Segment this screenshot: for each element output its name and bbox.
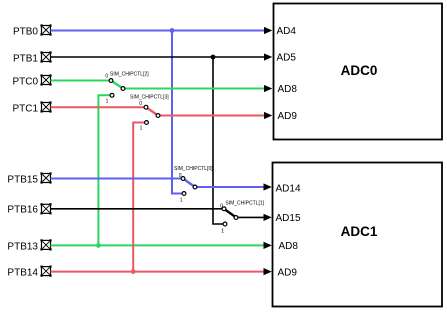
svg-text:0: 0 [105, 74, 108, 80]
svg-text:PTB1: PTB1 [13, 54, 38, 65]
wire switch common to AD8 ADC0 (green) [123, 88, 265, 90]
svg-text:PTC0: PTC0 [12, 77, 38, 88]
svg-text:PTB0: PTB0 [13, 27, 38, 38]
node junction blue [170, 28, 175, 33]
pin PTB1 [13, 51, 52, 64]
arrow into AD9 ADC0 [264, 112, 272, 119]
svg-text:AD9: AD9 [278, 111, 298, 122]
wire PTB14 to AD9 ADC1 (red) [51, 271, 265, 273]
svg-text:PTB16: PTB16 [7, 204, 38, 215]
wire PTC1 to switch 0 (red) [51, 106, 147, 108]
switch SIM_CHIPCTL[0] [174, 166, 213, 203]
svg-text:1: 1 [221, 228, 224, 234]
arrow into AD5 [264, 53, 272, 60]
pin PTB15 [7, 172, 51, 185]
svg-text:SIM_CHIPCTL[2]: SIM_CHIPCTL[2] [110, 72, 149, 78]
arrow into AD14 [264, 183, 272, 190]
wire blue vertical branch PTB0 to switch 1 [172, 31, 184, 194]
svg-text:SIM_CHIPCTL[0]: SIM_CHIPCTL[0] [174, 166, 213, 172]
wire PTB1 to AD5 (black) [51, 56, 265, 58]
block ADC0 [274, 4, 443, 140]
svg-text:AD8: AD8 [278, 84, 298, 95]
wire PTB16 to switch 0 (black) [51, 208, 225, 210]
arrow into AD15 [264, 214, 272, 221]
wire switch common to AD14 (blue) [195, 186, 265, 188]
arrow into AD9 ADC1 [264, 268, 272, 275]
wire switch common to AD9 ADC0 (red) [158, 115, 265, 117]
svg-text:0: 0 [139, 101, 142, 107]
wire red branch from switch 1 down to PTB14 [133, 123, 146, 272]
pin PTB0 [13, 24, 52, 37]
switch SIM_CHIPCTL[2] [105, 72, 149, 105]
svg-text:PTC1: PTC1 [12, 104, 38, 115]
pin PTC1 [12, 101, 51, 114]
svg-text:ADC1: ADC1 [341, 224, 378, 239]
svg-text:ADC0: ADC0 [341, 63, 378, 78]
arrow into AD8 ADC1 [264, 242, 272, 249]
wire PTB13 to AD8 ADC1 (green) [51, 244, 265, 246]
svg-text:SIM_CHIPCTL[3]: SIM_CHIPCTL[3] [130, 95, 169, 101]
svg-text:AD15: AD15 [276, 213, 301, 224]
pin PTB14 [7, 266, 51, 279]
node junction red [131, 269, 136, 274]
svg-text:AD14: AD14 [276, 184, 301, 195]
block ADC1 [273, 163, 443, 307]
svg-text:1: 1 [106, 99, 109, 105]
svg-text:PTB15: PTB15 [7, 175, 38, 186]
switch SIM_CHIPCTL[1] [220, 201, 265, 235]
svg-text:AD5: AD5 [277, 53, 297, 64]
wire switch common to AD15 (black) [236, 216, 265, 218]
switch SIM_CHIPCTL[3] [130, 95, 169, 132]
wire PTC0 to switch 0 (green) [51, 80, 112, 82]
node junction green [96, 243, 101, 248]
wire green branch from switch 1 down to PTB13 [98, 95, 112, 245]
wire PTB0 to AD4 (blue) [51, 30, 265, 32]
arrow into AD4 [264, 27, 272, 34]
node junction black [211, 55, 216, 60]
svg-text:SIM_CHIPCTL[1]: SIM_CHIPCTL[1] [225, 201, 264, 207]
svg-text:AD4: AD4 [277, 26, 297, 37]
svg-text:1: 1 [140, 126, 143, 132]
wire black vertical branch PTB1 to switch 1 [213, 57, 225, 224]
svg-text:PTB14: PTB14 [7, 268, 38, 279]
svg-text:AD8: AD8 [279, 241, 299, 252]
arrow into AD8 ADC0 [264, 85, 272, 92]
pin PTB13 [7, 239, 51, 252]
svg-text:1: 1 [180, 197, 183, 203]
svg-text:PTB13: PTB13 [7, 241, 38, 252]
svg-text:AD9: AD9 [278, 267, 298, 278]
pin PTC0 [12, 74, 51, 87]
wire PTB15 to switch 0 (blue) [51, 178, 184, 180]
pin PTB16 [7, 203, 51, 215]
